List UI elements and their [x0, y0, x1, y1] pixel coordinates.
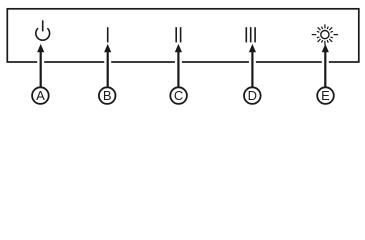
power symbol (standby) — [36, 20, 50, 40]
border gap at arrow C — [175, 60, 182, 65]
border gap at arrow D — [249, 60, 256, 65]
callout circle A — [32, 87, 49, 104]
symbol III — [246, 27, 255, 42]
symbol II — [176, 27, 180, 42]
callout circle E — [317, 87, 334, 104]
arrow A — [37, 44, 44, 87]
arrow C — [175, 44, 182, 87]
callout circle C — [170, 87, 187, 104]
arrow B — [104, 44, 111, 87]
svg-text:D: D — [248, 88, 257, 103]
arrow D — [249, 44, 256, 87]
callout circle D — [244, 87, 261, 104]
border gap at arrow E — [322, 60, 329, 65]
arrow E — [322, 44, 329, 87]
panel rectangle — [7, 9, 359, 62]
svg-text:C: C — [174, 88, 183, 103]
border gap at arrow A — [37, 60, 44, 65]
border gap at arrow B — [104, 60, 111, 65]
svg-text:E: E — [321, 88, 330, 103]
svg-text:B: B — [103, 88, 112, 103]
svg-text:A: A — [36, 88, 45, 103]
callout circle B — [99, 87, 116, 104]
symbol I — [107, 27, 109, 42]
sun / brightness symbol — [312, 24, 338, 45]
